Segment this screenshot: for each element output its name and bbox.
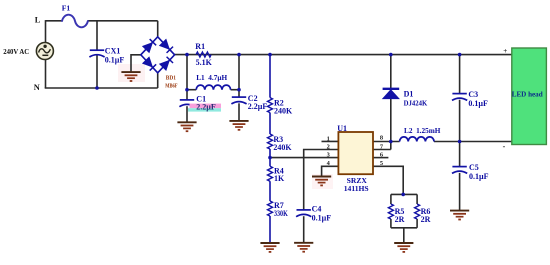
svg-text:L: L [35, 15, 41, 24]
node junction 390.8,141.5 [389, 140, 393, 144]
wire L1 right lead [231, 89, 239, 91]
capacitor C1 [179, 100, 194, 107]
node junction 187,54.6 [185, 53, 189, 57]
svg-text:L1 4.7µH: L1 4.7µH [196, 73, 227, 82]
capacitor C4 [296, 210, 311, 217]
svg-text:240K: 240K [274, 107, 293, 116]
wire bridge top vertical [157, 21, 159, 38]
svg-text:U1: U1 [337, 124, 347, 133]
wire C1 lower stem [186, 106, 188, 122]
ground U1 pin4 [312, 177, 331, 186]
svg-text:1411HS: 1411HS [344, 184, 369, 193]
wire R2-R3 link [269, 113, 271, 134]
ground C2 [229, 121, 248, 130]
svg-text:8: 8 [380, 135, 383, 142]
svg-text:0.1µF: 0.1µF [469, 172, 489, 181]
diode bridge upper-left [143, 39, 156, 53]
svg-text:1: 1 [327, 135, 330, 142]
svg-text:5: 5 [380, 160, 383, 167]
wire pin5 to R5R6 [373, 166, 403, 194]
wire L top rail [46, 20, 63, 22]
wire pin8 switch node [373, 141, 400, 143]
LED head load [512, 48, 547, 145]
bridge rectifier BD1 diamond [141, 37, 175, 73]
wire L terminal vertical [45, 20, 47, 43]
svg-text:C4: C4 [312, 205, 322, 214]
wire C3 to LED return [459, 100, 461, 167]
svg-text:D1: D1 [404, 89, 414, 98]
wire D1 lower lead [390, 99, 392, 142]
node junction 403.2,194.4 [401, 193, 405, 197]
ground halo artifact 2 [312, 174, 333, 189]
fuse F1 [62, 15, 88, 28]
wire pin4 to ground [322, 166, 339, 176]
wire L2 output to LED [434, 141, 512, 143]
svg-text:CX1: CX1 [105, 47, 121, 56]
wire pin7 stub [373, 149, 391, 151]
svg-text:0.1µF: 0.1µF [468, 99, 488, 108]
ac source V 240V [36, 43, 53, 60]
wire C4 lower stem [303, 216, 305, 242]
svg-text:N: N [34, 83, 40, 92]
wire R5R6 bottom bus [391, 227, 417, 229]
svg-text:5.1K: 5.1K [196, 58, 213, 67]
wire R4-R7 link [269, 181, 271, 201]
node junction 270,54.6 [268, 53, 272, 57]
wire R2 top lead [269, 55, 271, 98]
wire pin7-pin8 tie [390, 142, 392, 150]
wire AC source bottom vertical [45, 59, 47, 88]
wire L1 left lead [187, 89, 196, 91]
inductor L1 [196, 85, 230, 90]
resistor R1 [196, 52, 211, 57]
ground halo artifact [118, 64, 145, 82]
ground C5 [450, 211, 469, 220]
node A vertical (bridge output to C1) [186, 55, 188, 100]
svg-text:2: 2 [327, 143, 330, 150]
svg-text:0.1µF: 0.1µF [312, 213, 332, 222]
wire CX1 upper [96, 21, 98, 50]
node B vertical (to C2) [238, 55, 240, 98]
node junction 459.6,54.6 [458, 53, 462, 57]
wire C2 lower stem [238, 103, 240, 121]
node junction 390.8,54.6 [389, 53, 393, 57]
capacitor CX1 [89, 50, 104, 57]
svg-text:0.1µF: 0.1µF [105, 55, 125, 64]
resistor R4 [268, 166, 273, 181]
capacitor C2 [231, 97, 246, 104]
wire R3-R4 link [269, 149, 271, 166]
capacitor C3 [452, 94, 467, 101]
resistor R6 [415, 204, 420, 219]
svg-text:2R: 2R [395, 215, 405, 224]
capacitor C5 [452, 167, 467, 174]
highlight cyan C1 value [188, 108, 221, 111]
svg-text:1K: 1K [274, 174, 285, 183]
resistor R2 [268, 98, 273, 113]
wire R7 bottom lead [269, 216, 271, 243]
wire R5 bottom lead [390, 219, 392, 228]
highlight pink C1 value [190, 104, 222, 109]
wire D1 upper lead [390, 55, 392, 89]
wire R6 top lead [416, 194, 418, 204]
wire C3 upper lead [459, 55, 461, 94]
svg-text:F1: F1 [62, 4, 71, 13]
node junction 187,89.7 [185, 88, 189, 92]
wire R5 top lead [390, 194, 392, 204]
wire N bottom rail [45, 87, 158, 89]
wire R5R6 ground stem [403, 228, 405, 243]
resistor R5 [388, 204, 393, 219]
svg-text:2.2µF: 2.2µF [248, 102, 268, 111]
wire C5 lower stem [459, 173, 461, 211]
svg-text:LED head: LED head [512, 90, 543, 98]
ground R5 R6 [394, 243, 413, 252]
wire CX1 lower [96, 55, 98, 88]
wire bridge bottom vertical [157, 72, 159, 88]
IC U1 body [338, 132, 373, 174]
svg-text:3: 3 [327, 152, 330, 159]
wire R6 bottom lead [416, 219, 418, 228]
node junction 239,54.6 [237, 53, 241, 57]
svg-text:BD1: BD1 [166, 75, 176, 82]
ground C4 [294, 243, 313, 252]
ground R7 [260, 243, 279, 252]
diode bridge lower-right [160, 57, 173, 71]
wire pin3 to divider node [270, 157, 338, 159]
ground bridge negative [121, 72, 140, 81]
svg-text:240K: 240K [273, 143, 292, 152]
wire R5R6 top bus [391, 193, 417, 195]
svg-text:2.2µF: 2.2µF [196, 102, 216, 111]
svg-text:330K: 330K [274, 209, 288, 218]
svg-text:-: - [503, 142, 506, 151]
node junction 97,88 [95, 86, 99, 90]
svg-text:2R: 2R [421, 215, 431, 224]
diode bridge upper-right [160, 39, 173, 53]
inductor L2 [400, 137, 434, 142]
wire pin6 stub [373, 157, 388, 159]
diode D1 [383, 89, 400, 99]
svg-text:+: + [503, 47, 507, 55]
svg-text:C5: C5 [469, 163, 479, 172]
node junction 459.6,141.5 [458, 140, 462, 144]
svg-text:R1: R1 [195, 42, 205, 51]
wire pin2 to C4 [304, 150, 339, 210]
svg-text:240V AC: 240V AC [3, 47, 29, 56]
ground C1 [177, 122, 196, 131]
wire bridge left to ground [131, 55, 141, 72]
svg-text:DJ424K: DJ424K [404, 99, 428, 108]
resistor R7 [268, 201, 273, 216]
node junction 270,157.6 [268, 156, 272, 160]
wire after fuse [88, 20, 158, 22]
resistor R3 [268, 134, 273, 149]
wire main positive rail [174, 54, 512, 56]
diode bridge lower-left [143, 57, 156, 71]
node junction 239,89.7 [237, 88, 241, 92]
svg-text:L2 1.25mH: L2 1.25mH [404, 126, 440, 135]
svg-text:MB6F: MB6F [165, 83, 177, 90]
wire pin1 stub [322, 140, 339, 142]
